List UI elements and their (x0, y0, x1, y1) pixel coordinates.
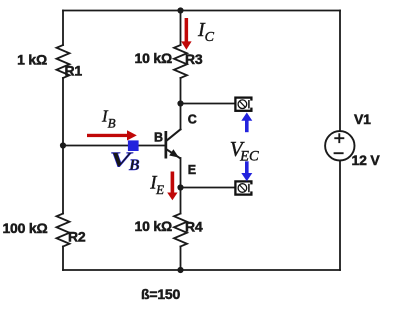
svg-text:VEC: VEC (230, 137, 259, 165)
svg-text:IE: IE (149, 173, 164, 197)
svg-text:1 kΩ: 1 kΩ (17, 52, 47, 68)
svg-text:V1: V1 (354, 111, 371, 127)
svg-text:R1: R1 (65, 63, 83, 79)
svg-text:ß=150: ß=150 (141, 286, 180, 302)
svg-text:10 kΩ: 10 kΩ (135, 218, 172, 234)
svg-text:IC: IC (197, 19, 215, 45)
svg-text:R3: R3 (185, 51, 203, 67)
svg-text:E: E (188, 163, 196, 177)
svg-text:12 V: 12 V (352, 152, 381, 168)
svg-text:10 kΩ: 10 kΩ (135, 50, 172, 66)
svg-text:R2: R2 (68, 229, 86, 245)
svg-text:IB: IB (101, 106, 116, 130)
svg-text:100 kΩ: 100 kΩ (2, 220, 47, 236)
svg-text:R4: R4 (185, 219, 203, 235)
svg-text:C: C (188, 113, 197, 127)
svg-text:B: B (154, 130, 163, 144)
svg-text:B: B (128, 157, 140, 174)
